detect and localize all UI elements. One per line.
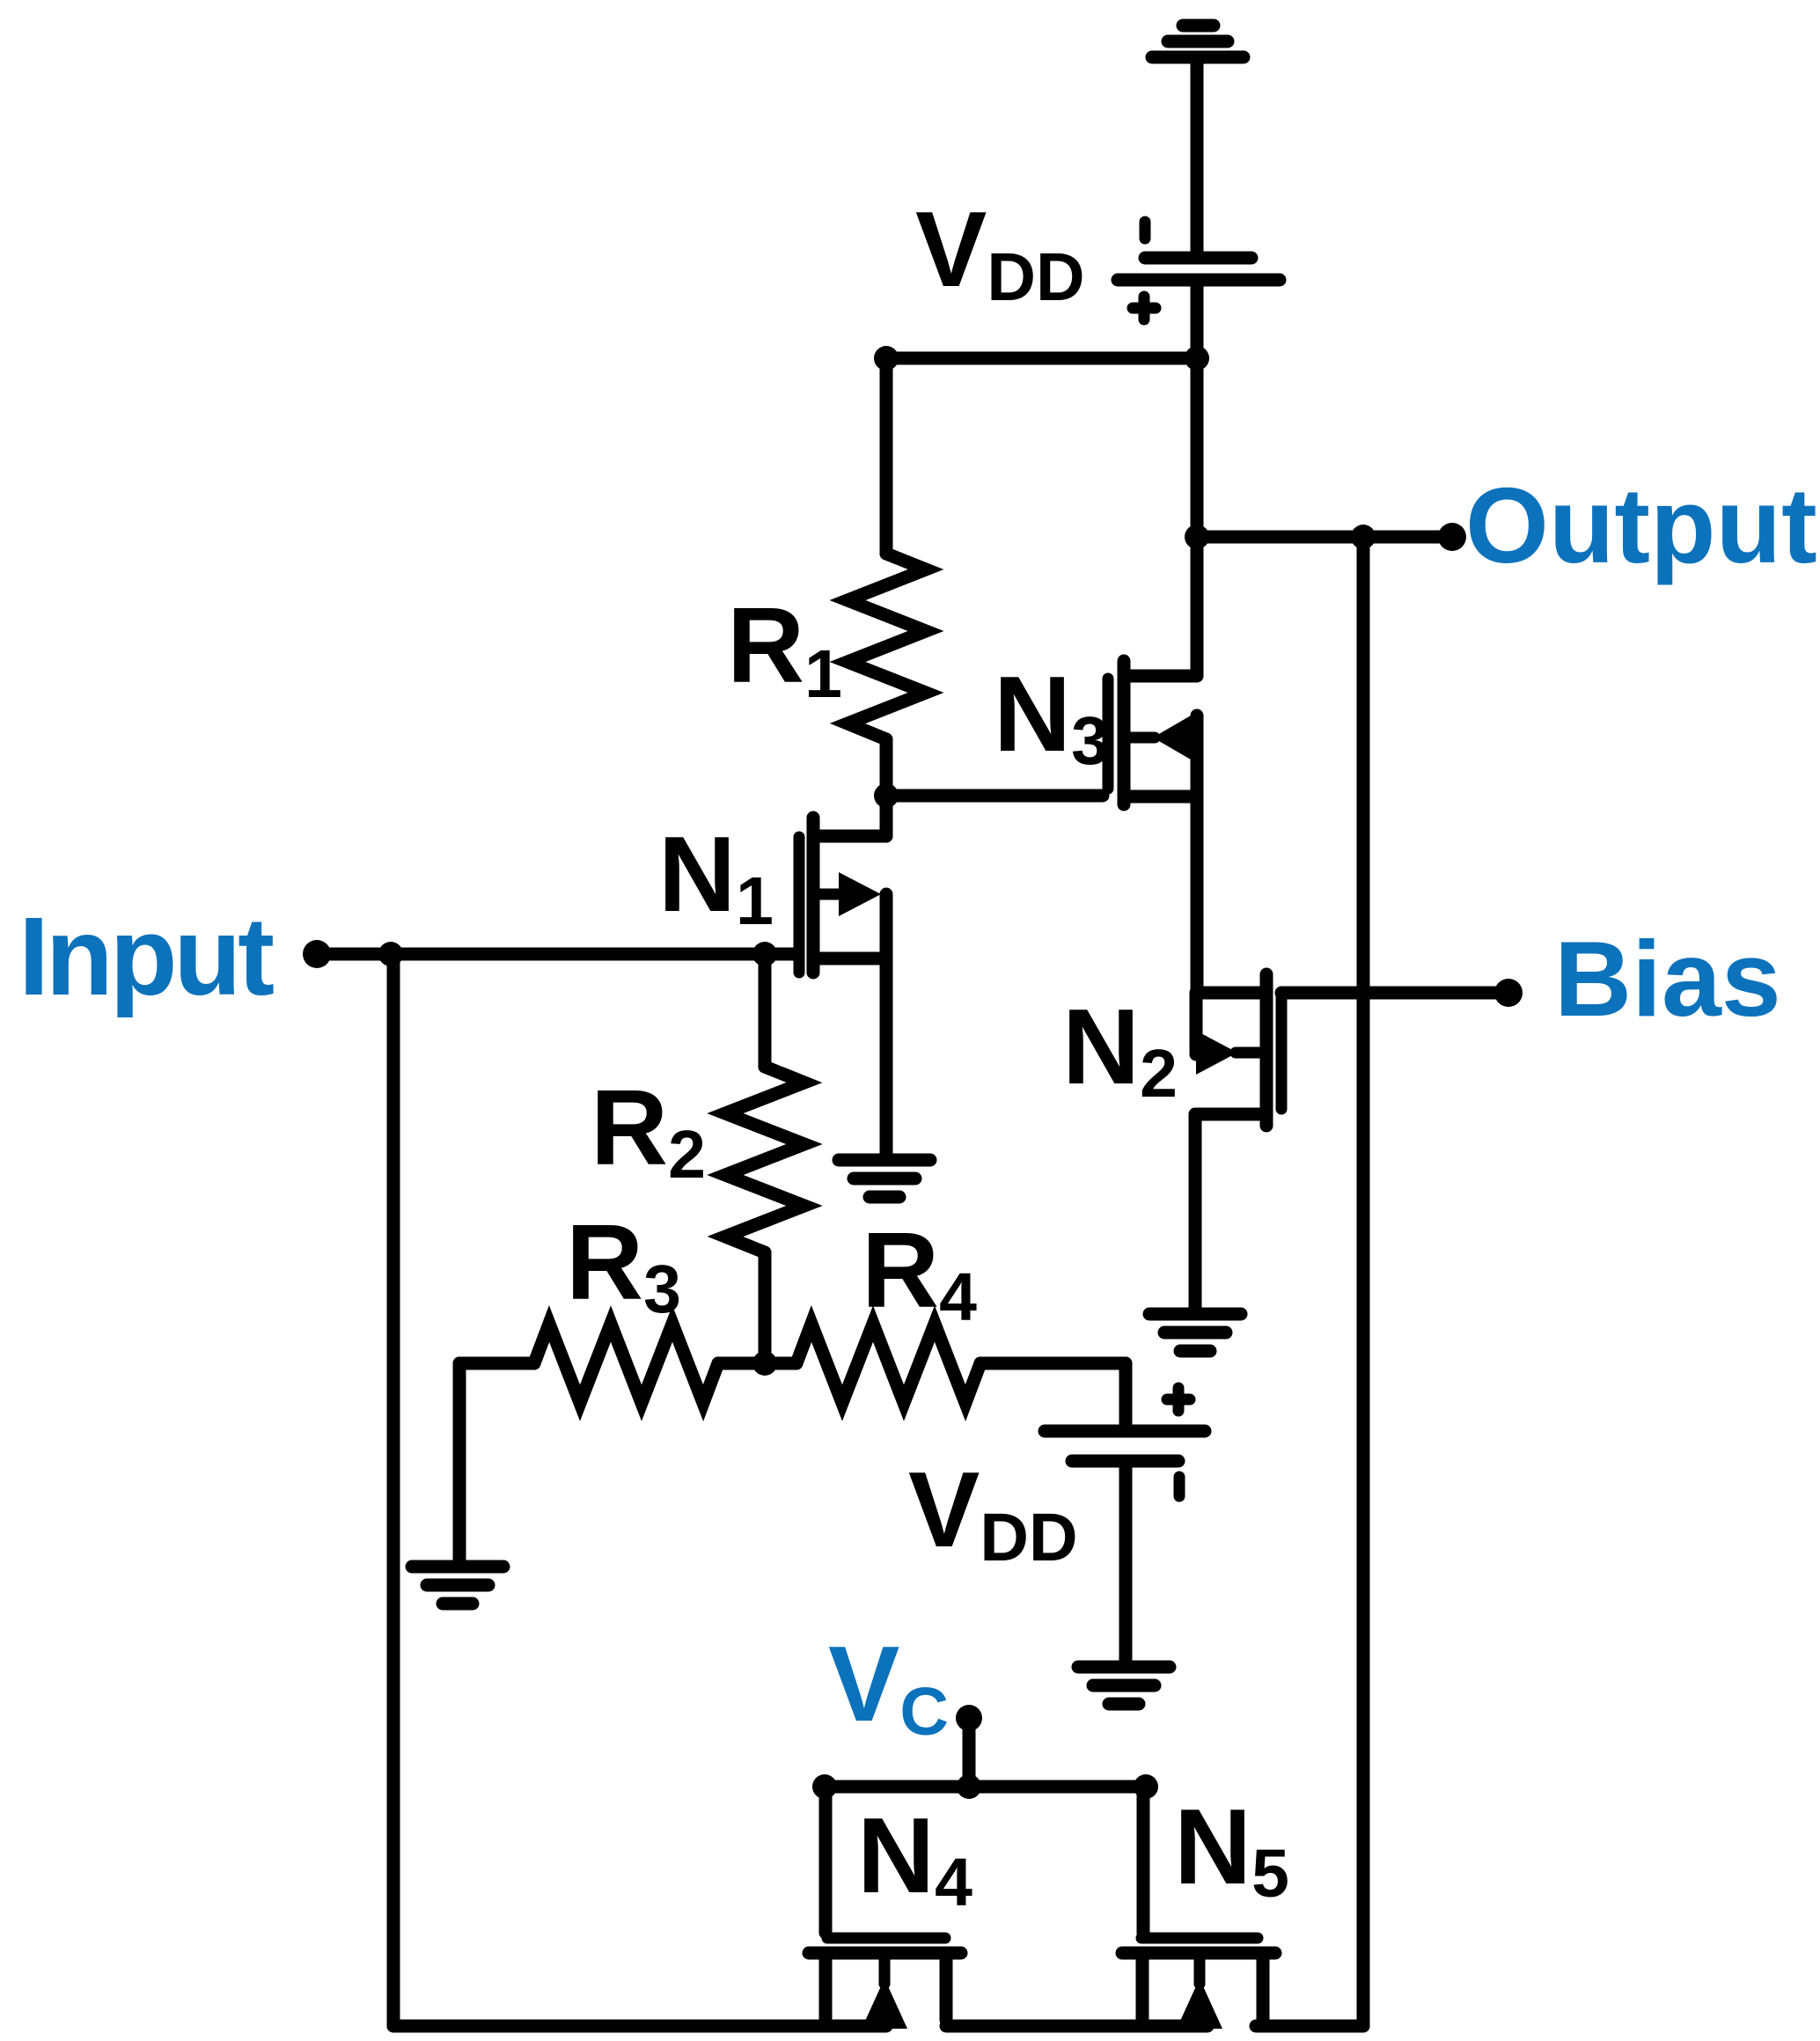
resistor R3: [459, 1324, 765, 1403]
ground (under R3 left lead): [412, 1567, 503, 1604]
wire node A to N3 gate: [886, 789, 1103, 803]
transistor N4: [809, 1787, 961, 2029]
node N5-gate-top: [1134, 1774, 1158, 1799]
terminal VC: [956, 1705, 982, 1731]
wire Bias: [1281, 987, 1508, 1000]
svg-text:R1: R1: [727, 585, 842, 712]
svg-text:N5: N5: [1174, 1787, 1289, 1912]
wire top ground to battery: [1191, 57, 1204, 253]
node J1: [1185, 346, 1209, 371]
node Input-branch: [378, 942, 403, 966]
svg-text:R4: R4: [862, 1210, 977, 1335]
resistor R2: [725, 954, 804, 1363]
node Output-branch: [1351, 525, 1376, 549]
terminal Output: [1438, 523, 1466, 551]
wire battery to node J1: [1191, 280, 1204, 358]
node R2-top: [752, 942, 777, 966]
wire R3 left lead down: [453, 1363, 466, 1560]
svg-text:VC: VC: [828, 1624, 949, 1750]
svg-text:Input: Input: [18, 894, 274, 1018]
wire J1 to Output node: [1191, 358, 1204, 537]
wire battery bottom to ground: [1119, 1461, 1133, 1660]
node N4-gate-top: [812, 1774, 837, 1799]
ground (inverted, top of VDD battery): [1152, 26, 1244, 57]
ground (under N1 source): [839, 1160, 930, 1197]
svg-text:Bias: Bias: [1554, 919, 1781, 1039]
wire VC gate rail: [825, 1780, 1146, 1794]
svg-text:R2: R2: [591, 1068, 706, 1193]
wire bottom rail right: [1256, 2020, 1363, 2033]
wire Output horizontal: [1197, 531, 1452, 544]
transistor N3: [1108, 661, 1197, 804]
transistor N2: [1195, 974, 1281, 1309]
svg-text:VDD: VDD: [908, 1450, 1078, 1575]
wire bottom rail left: [393, 2020, 886, 2033]
battery VDD (bottom): [1045, 1388, 1205, 1496]
node A (R1 / N1 drain / N3 gate): [874, 783, 899, 808]
svg-text:N3: N3: [994, 654, 1109, 779]
wire VDD down to N3 drain: [1191, 537, 1204, 676]
terminal Bias: [1494, 979, 1523, 1007]
wire N3 source/body down to N2 drain: [1191, 716, 1204, 993]
ground (under N2 source): [1149, 1314, 1241, 1351]
node R2/R3/R4 junction: [752, 1351, 777, 1376]
wire Input horizontal: [317, 948, 794, 961]
wire Input down long left vertical: [387, 954, 400, 2026]
node VC-rail: [957, 1774, 981, 1799]
transistor N5: [1122, 1787, 1275, 2029]
resistor R4: [765, 1324, 1126, 1403]
svg-text:VDD: VDD: [915, 189, 1085, 315]
node Output-main: [1185, 525, 1209, 549]
svg-text:N2: N2: [1062, 987, 1178, 1112]
terminal Input: [303, 940, 331, 968]
svg-text:Output: Output: [1465, 466, 1817, 585]
svg-text:N1: N1: [658, 814, 774, 939]
svg-text:R3: R3: [566, 1202, 681, 1327]
ground (under bottom battery): [1078, 1667, 1170, 1704]
transistor N1: [799, 796, 886, 1154]
wire bottom rail middle: [946, 2020, 1207, 2033]
battery VDD (top): [1118, 222, 1280, 319]
wire J1 to J2 (top horizontal): [886, 352, 1197, 365]
node J2: [874, 346, 899, 371]
svg-text:N4: N4: [857, 1795, 972, 1920]
wire VC stem: [963, 1718, 976, 1787]
wire R4 lead down to battery: [1119, 1363, 1133, 1424]
wire Output down to bottom right rail: [1357, 537, 1370, 2026]
resistor R1: [848, 358, 926, 796]
